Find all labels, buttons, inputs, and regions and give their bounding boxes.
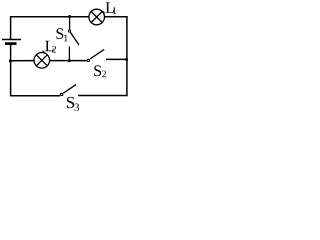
label L2 leader tick — [43, 51, 46, 54]
node junction S1 top — [68, 15, 71, 18]
wire right rail — [126, 16, 128, 96]
wire left rail lower (battery bottom lead) — [10, 45, 12, 96]
label S3 — [67, 97, 79, 111]
wire bottom rail right segment — [78, 95, 128, 97]
wire middle rail left segment — [10, 60, 34, 62]
wire bottom rail left segment — [11, 95, 61, 97]
label S2 — [94, 65, 106, 77]
label S1 — [56, 28, 67, 41]
node junction S1 bottom — [68, 59, 71, 62]
lamp L2 — [34, 53, 50, 69]
switch S1 bottom lead — [68, 47, 70, 61]
wire middle rail mid segment — [50, 60, 87, 62]
switch S1 blade — [70, 32, 79, 45]
battery short plate (-) — [5, 42, 17, 45]
lamp L1 — [89, 9, 105, 25]
switch S1 top lead — [69, 17, 71, 30]
background — [0, 0, 131, 112]
label L2 — [45, 41, 56, 53]
switch S3 — [61, 85, 77, 96]
wire middle rail right segment — [106, 58, 127, 60]
switch S2 — [87, 49, 104, 61]
node junction left-middle — [9, 59, 12, 62]
switch S1 pivot circle — [68, 30, 70, 32]
node junction right-middle — [125, 58, 128, 61]
wire left rail upper (battery top lead) — [10, 16, 12, 39]
label L1 — [106, 2, 117, 13]
wire top rail right segment — [105, 16, 128, 18]
wire top rail left segment — [11, 16, 90, 18]
battery long plate (+) — [2, 39, 21, 41]
label L1 leader tick — [103, 11, 105, 13]
